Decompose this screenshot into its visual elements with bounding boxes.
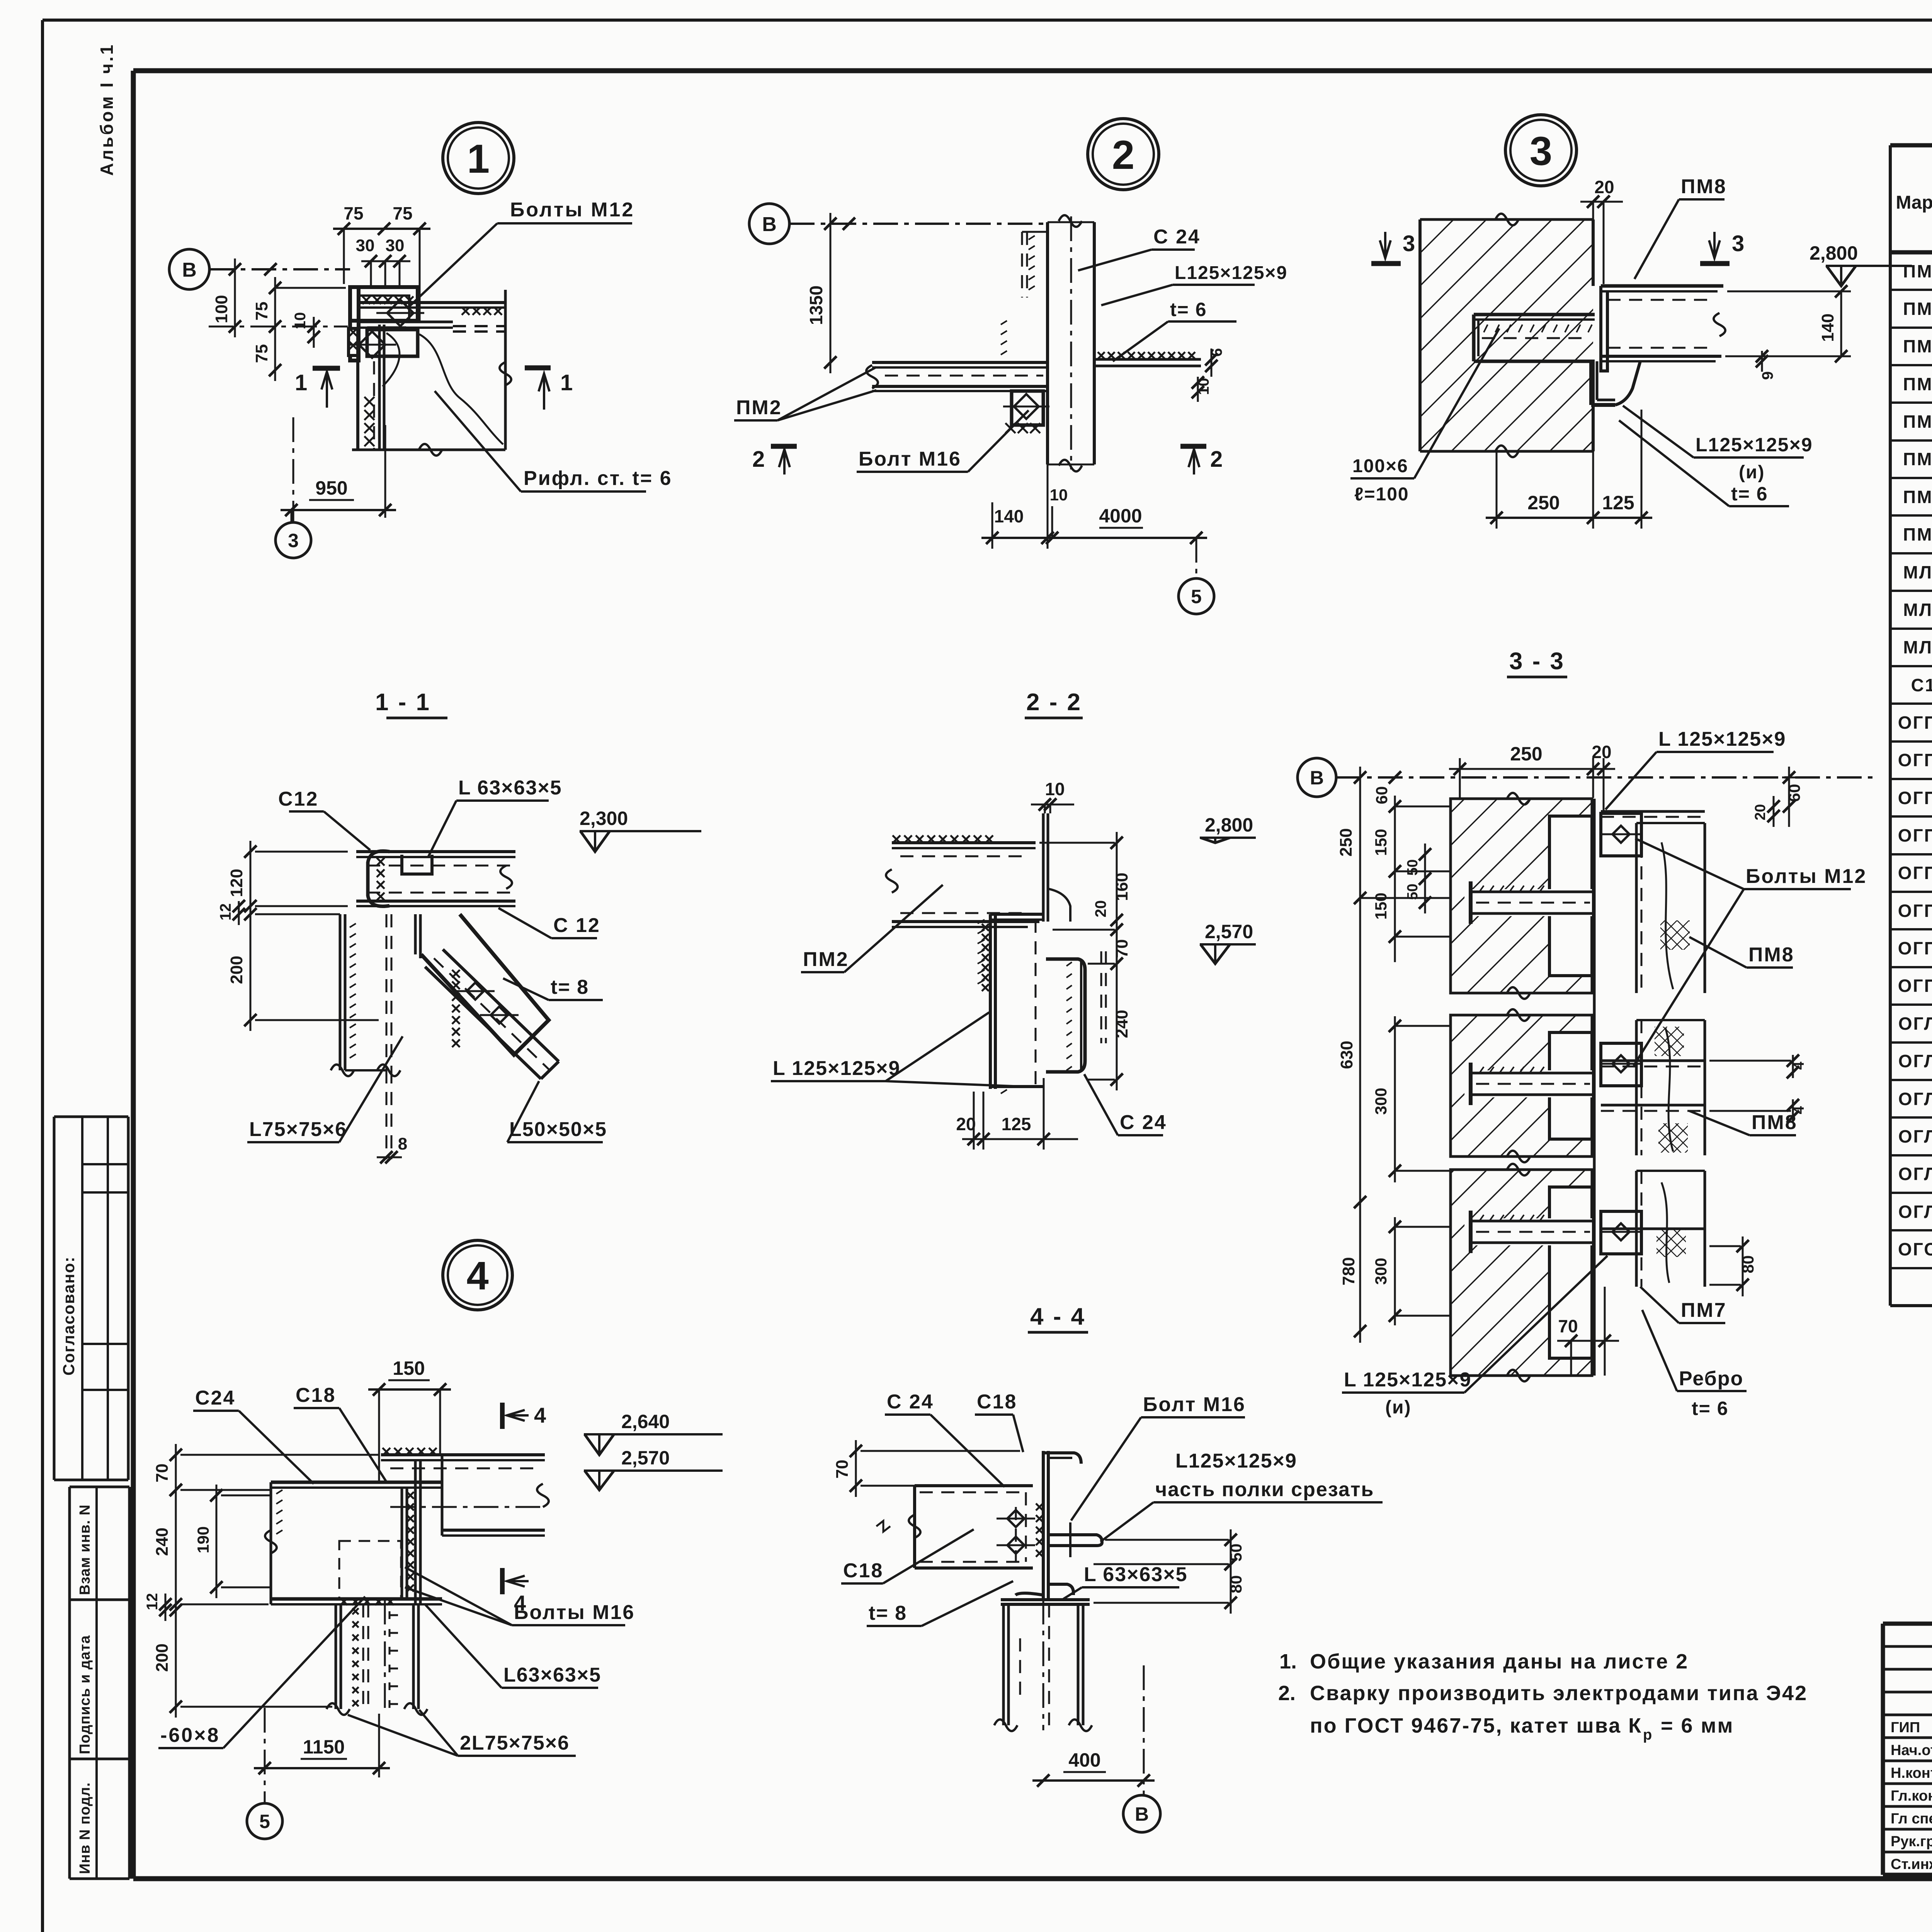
- svg-text:Марка: Марка: [1896, 192, 1932, 213]
- svg-text:t= 8: t= 8: [551, 976, 589, 998]
- svg-text:75: 75: [252, 344, 271, 363]
- svg-text:5: 5: [1191, 586, 1202, 607]
- svg-text:ОГЛ5: ОГЛ5: [1898, 1164, 1932, 1184]
- svg-text:190: 190: [194, 1526, 212, 1553]
- svg-text:ПМ6: ПМ6: [1903, 449, 1932, 469]
- svg-text:ПМ5: ПМ5: [1903, 412, 1932, 432]
- svg-text:20: 20: [1594, 177, 1614, 197]
- svg-text:8: 8: [398, 1134, 407, 1153]
- svg-text:2,800: 2,800: [1810, 242, 1858, 264]
- svg-text:по ГОСТ 9467-75, катет шва К: по ГОСТ 9467-75, катет шва К: [1310, 1714, 1642, 1737]
- svg-text:ОГП1: ОГП1: [1898, 713, 1932, 733]
- svg-text:ОГС1: ОГС1: [1898, 1239, 1932, 1259]
- svg-text:В: В: [182, 259, 197, 281]
- svg-text:ОГЛ2: ОГЛ2: [1898, 1051, 1932, 1071]
- svg-text:ПМ7: ПМ7: [1903, 487, 1932, 507]
- svg-text:12: 12: [144, 1593, 161, 1611]
- svg-text:1: 1: [467, 136, 490, 182]
- svg-text:ОГЛ1: ОГЛ1: [1898, 1014, 1932, 1034]
- svg-text:ОГЛ6: ОГЛ6: [1898, 1202, 1932, 1222]
- svg-text:2: 2: [1210, 447, 1223, 472]
- svg-text:150: 150: [393, 1357, 425, 1379]
- svg-text:С12: С12: [278, 788, 318, 810]
- svg-text:Альбом I ч.1: Альбом I ч.1: [97, 43, 117, 176]
- svg-text:ПМ1: ПМ1: [1903, 261, 1932, 281]
- svg-text:Общие указания даны на листе 2: Общие указания даны на листе 2: [1310, 1650, 1689, 1673]
- svg-text:С24: С24: [195, 1387, 235, 1409]
- svg-text:МЛ2: МЛ2: [1903, 600, 1932, 620]
- svg-text:L 63×63×5: L 63×63×5: [458, 777, 562, 799]
- svg-text:t= 6: t= 6: [1692, 1398, 1729, 1419]
- svg-text:2: 2: [1112, 133, 1134, 178]
- svg-text:Н.контр.: Н.контр.: [1891, 1765, 1932, 1781]
- svg-text:1350: 1350: [806, 286, 826, 325]
- svg-text:2.: 2.: [1278, 1682, 1296, 1705]
- svg-text:1.: 1.: [1279, 1650, 1297, 1673]
- svg-text:2,300: 2,300: [580, 808, 628, 829]
- svg-text:ОГП5: ОГП5: [1898, 863, 1932, 883]
- svg-text:С18: С18: [296, 1384, 336, 1406]
- svg-text:В: В: [1135, 1803, 1149, 1825]
- svg-text:2,640: 2,640: [621, 1411, 670, 1432]
- svg-text:С 24: С 24: [887, 1391, 934, 1413]
- svg-text:9: 9: [1759, 371, 1776, 380]
- svg-text:2,570: 2,570: [1205, 921, 1253, 942]
- svg-text:L63×63×5: L63×63×5: [503, 1664, 601, 1686]
- svg-text:400: 400: [1068, 1749, 1100, 1771]
- svg-text:Взам инв. N: Взам инв. N: [77, 1504, 93, 1595]
- svg-text:70: 70: [1558, 1316, 1578, 1336]
- svg-text:L 125×125×9: L 125×125×9: [1344, 1369, 1471, 1391]
- svg-text:ℓ=100: ℓ=100: [1354, 484, 1409, 505]
- svg-text:Гл спец: Гл спец: [1891, 1811, 1932, 1827]
- svg-text:Болт М16: Болт М16: [859, 448, 961, 470]
- svg-text:ПМ8: ПМ8: [1748, 944, 1794, 966]
- svg-text:L125×125×9: L125×125×9: [1696, 434, 1813, 456]
- svg-text:L50×50×5: L50×50×5: [509, 1118, 607, 1141]
- svg-text:125: 125: [1602, 492, 1634, 514]
- svg-text:5: 5: [259, 1811, 270, 1832]
- svg-text:250: 250: [1337, 828, 1355, 856]
- svg-text:240: 240: [1112, 1010, 1131, 1038]
- svg-text:2L75×75×6: 2L75×75×6: [460, 1732, 570, 1754]
- svg-text:Болт М16: Болт М16: [1143, 1393, 1246, 1416]
- svg-text:1 - 1: 1 - 1: [375, 689, 431, 716]
- svg-text:Болты М12: Болты М12: [510, 199, 634, 221]
- svg-text:t= 8: t= 8: [869, 1602, 907, 1624]
- svg-text:4: 4: [534, 1403, 546, 1427]
- svg-text:ОГЛ4: ОГЛ4: [1898, 1126, 1932, 1146]
- svg-text:Ст.инж.: Ст.инж.: [1891, 1856, 1932, 1872]
- svg-text:ПМ4: ПМ4: [1903, 374, 1932, 394]
- svg-text:950: 950: [315, 477, 347, 499]
- svg-text:150: 150: [1372, 829, 1390, 856]
- svg-text:ОГП7: ОГП7: [1898, 938, 1932, 958]
- svg-text:МЛ3: МЛ3: [1903, 637, 1932, 657]
- svg-text:630: 630: [1337, 1041, 1356, 1069]
- svg-text:р: р: [1643, 1727, 1652, 1743]
- svg-text:L 63×63×5: L 63×63×5: [1084, 1563, 1188, 1586]
- svg-text:В: В: [762, 213, 777, 236]
- svg-text:75: 75: [393, 203, 412, 223]
- svg-text:(и): (и): [1385, 1397, 1411, 1418]
- svg-text:20: 20: [956, 1114, 976, 1134]
- svg-text:(и): (и): [1739, 462, 1765, 483]
- svg-text:250: 250: [1510, 743, 1542, 765]
- svg-text:300: 300: [1372, 1088, 1390, 1115]
- svg-text:3: 3: [1530, 129, 1552, 174]
- svg-text:120: 120: [227, 869, 246, 897]
- svg-text:75: 75: [252, 302, 271, 321]
- svg-text:12: 12: [217, 903, 234, 921]
- svg-text:20: 20: [1592, 742, 1611, 762]
- svg-text:L 125×125×9: L 125×125×9: [773, 1057, 900, 1080]
- svg-text:t= 6: t= 6: [1170, 299, 1207, 320]
- svg-text:20: 20: [1092, 900, 1109, 918]
- svg-text:Подпись и дата: Подпись и дата: [77, 1635, 93, 1754]
- svg-text:200: 200: [153, 1643, 172, 1672]
- svg-text:160: 160: [1112, 872, 1131, 901]
- svg-text:ОГЛ3: ОГЛ3: [1898, 1089, 1932, 1109]
- svg-text:240: 240: [153, 1527, 172, 1556]
- svg-text:10: 10: [1045, 779, 1065, 799]
- svg-text:ОГП8: ОГП8: [1898, 976, 1932, 996]
- svg-text:1: 1: [560, 370, 573, 395]
- svg-text:Рифл. ст. t= 6: Рифл. ст. t= 6: [524, 467, 672, 490]
- svg-text:10: 10: [1195, 378, 1212, 395]
- svg-text:780: 780: [1339, 1257, 1358, 1285]
- svg-text:Инв N подл.: Инв N подл.: [77, 1782, 93, 1874]
- svg-text:МЛ1: МЛ1: [1903, 562, 1932, 582]
- svg-text:ОГП6: ОГП6: [1898, 901, 1932, 921]
- svg-text:200: 200: [227, 956, 246, 984]
- svg-text:С18: С18: [843, 1560, 883, 1582]
- svg-text:ПМ8: ПМ8: [1681, 175, 1727, 198]
- svg-text:80: 80: [1227, 1575, 1245, 1594]
- svg-text:100: 100: [212, 295, 231, 323]
- svg-text:ОГП2: ОГП2: [1898, 750, 1932, 770]
- svg-text:ОГП3: ОГП3: [1898, 788, 1932, 808]
- svg-text:Болты М12: Болты М12: [1746, 865, 1867, 888]
- svg-text:140: 140: [994, 506, 1024, 526]
- svg-text:С1: С1: [1911, 675, 1932, 695]
- svg-text:Болты М16: Болты М16: [514, 1601, 635, 1624]
- svg-text:Сварку производить электродами: Сварку производить электродами типа Э42: [1310, 1682, 1808, 1705]
- svg-text:30: 30: [356, 236, 375, 255]
- svg-text:60: 60: [1372, 786, 1391, 804]
- svg-text:75: 75: [344, 203, 363, 223]
- svg-text:10: 10: [292, 312, 309, 330]
- svg-text:125: 125: [1002, 1114, 1031, 1134]
- svg-text:В: В: [1310, 767, 1324, 789]
- svg-text:Ребро: Ребро: [1679, 1367, 1743, 1390]
- svg-text:250: 250: [1527, 492, 1560, 514]
- svg-text:ПМ2: ПМ2: [803, 948, 849, 971]
- svg-text:ПМ8: ПМ8: [1752, 1111, 1798, 1134]
- svg-text:4: 4: [1791, 1061, 1807, 1070]
- svg-text:2,570: 2,570: [621, 1447, 670, 1469]
- svg-text:часть полки срезать: часть полки срезать: [1155, 1478, 1374, 1501]
- svg-text:50: 50: [1405, 859, 1421, 876]
- svg-text:3 - 3: 3 - 3: [1509, 648, 1565, 675]
- svg-text:ПМ2: ПМ2: [1903, 299, 1932, 319]
- svg-text:ПМ7: ПМ7: [1681, 1299, 1727, 1321]
- svg-text:С 12: С 12: [553, 914, 600, 937]
- svg-text:3: 3: [288, 530, 299, 551]
- svg-text:4000: 4000: [1099, 505, 1142, 527]
- svg-text:60: 60: [1785, 784, 1803, 802]
- svg-text:Рук.гр.: Рук.гр.: [1891, 1833, 1932, 1850]
- svg-text:70: 70: [153, 1464, 172, 1483]
- svg-text:30: 30: [386, 236, 405, 255]
- svg-text:140: 140: [1818, 313, 1837, 342]
- svg-text:ПМ2: ПМ2: [736, 396, 782, 419]
- svg-text:t= 6: t= 6: [1731, 483, 1768, 505]
- svg-text:10: 10: [1050, 486, 1068, 504]
- svg-text:300: 300: [1372, 1258, 1390, 1285]
- svg-text:= 6 мм: = 6 мм: [1661, 1714, 1734, 1737]
- svg-text:4: 4: [466, 1253, 488, 1298]
- svg-text:70: 70: [833, 1460, 852, 1479]
- svg-text:100×6: 100×6: [1352, 456, 1408, 476]
- svg-text:ГИП: ГИП: [1891, 1719, 1920, 1736]
- svg-text:Нач.отд: Нач.отд: [1891, 1742, 1932, 1759]
- svg-text:2 - 2: 2 - 2: [1026, 689, 1082, 716]
- svg-text:3: 3: [1732, 231, 1744, 256]
- svg-text:4: 4: [1791, 1106, 1807, 1114]
- svg-text:L75×75×6: L75×75×6: [249, 1118, 347, 1141]
- svg-text:3: 3: [1403, 231, 1415, 256]
- svg-text:L125×125×9: L125×125×9: [1175, 263, 1287, 283]
- svg-text:-60×8: -60×8: [160, 1724, 220, 1747]
- svg-text:1150: 1150: [303, 1736, 345, 1758]
- svg-text:20: 20: [1752, 804, 1769, 820]
- svg-text:4 - 4: 4 - 4: [1030, 1303, 1086, 1330]
- svg-text:80: 80: [1739, 1255, 1757, 1274]
- svg-text:L 125×125×9: L 125×125×9: [1658, 728, 1786, 750]
- svg-text:1: 1: [295, 370, 307, 395]
- svg-text:ПМ3: ПМ3: [1903, 336, 1932, 356]
- svg-text:Гл.констр: Гл.констр: [1891, 1788, 1932, 1804]
- svg-text:2,800: 2,800: [1205, 814, 1253, 836]
- svg-text:150: 150: [1372, 893, 1390, 920]
- svg-text:L125×125×9: L125×125×9: [1175, 1450, 1297, 1472]
- svg-text:6: 6: [1208, 348, 1225, 357]
- svg-text:С18: С18: [977, 1391, 1017, 1413]
- svg-text:Согласовано:: Согласовано:: [60, 1256, 78, 1376]
- svg-text:2: 2: [752, 447, 765, 472]
- svg-text:ОГП4: ОГП4: [1898, 825, 1932, 845]
- svg-text:70: 70: [1112, 939, 1131, 958]
- svg-text:ПМ8: ПМ8: [1903, 524, 1932, 544]
- svg-text:С 24: С 24: [1153, 226, 1201, 248]
- svg-text:С 24: С 24: [1120, 1111, 1167, 1134]
